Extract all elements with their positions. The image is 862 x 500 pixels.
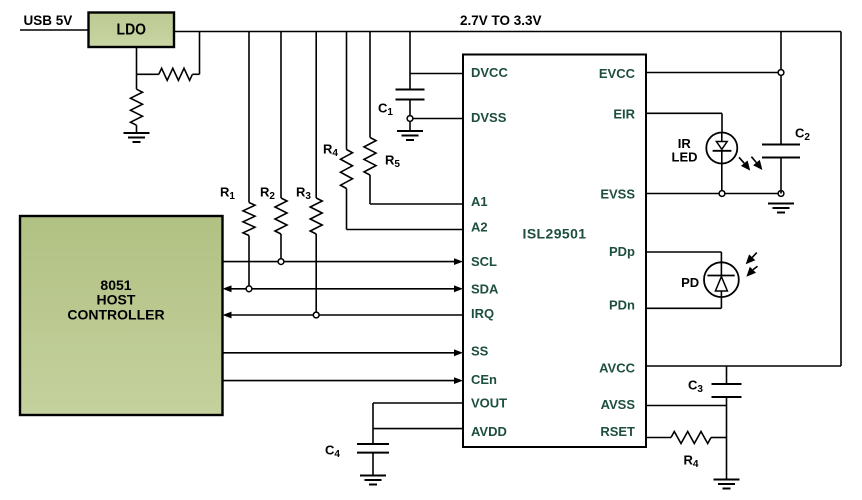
ground below C1: [397, 131, 423, 140]
svg-text:CEn: CEn: [471, 372, 497, 387]
resistor R4 (RSET): [646, 432, 727, 444]
node R1/SDA junction: [246, 286, 252, 292]
wire SCL: [223, 258, 464, 265]
node EVSS/C2 junction: [778, 191, 784, 197]
wire 3.3V rail: [174, 31, 841, 33]
wire EVCC branch vertical: [780, 32, 782, 145]
wire AVSS: [646, 405, 727, 407]
svg-text:PD: PD: [681, 275, 699, 290]
wire right rail drop: [840, 32, 842, 367]
svg-text:IRQ: IRQ: [471, 306, 494, 321]
svg-text:LED: LED: [672, 150, 698, 165]
capacitor C2: [762, 145, 800, 194]
wire DVSS: [410, 118, 463, 120]
wire LDO output to feedback node: [136, 47, 138, 74]
svg-text:EVSS: EVSS: [600, 187, 635, 202]
resistor LDO feedback (horizontal): [137, 32, 200, 81]
svg-text:VOUT: VOUT: [471, 396, 507, 411]
wire PDn: [646, 297, 721, 308]
svg-text:A2: A2: [471, 220, 488, 235]
capacitor C3: [712, 366, 742, 406]
ground below RSET: [714, 480, 740, 489]
node R3/IRQ junction: [313, 312, 319, 318]
resistor R1: [243, 32, 255, 289]
node LED/EVSS junction: [719, 191, 725, 197]
wire AVCC: [646, 365, 841, 367]
wire SDA: [223, 285, 464, 292]
IR LED emission arrows: [739, 157, 762, 171]
photodiode PD: [704, 262, 739, 297]
wire VOUT: [373, 403, 463, 444]
wire AVDD: [373, 428, 463, 430]
svg-text:SCL: SCL: [471, 254, 497, 269]
node R2/SCL junction: [278, 259, 284, 265]
svg-text:LDO: LDO: [117, 22, 147, 39]
wire IR LED to EVSS: [721, 164, 723, 194]
wire SS: [223, 349, 464, 356]
wire C3/RSET vertical: [726, 406, 728, 480]
wire USB 5V input: [20, 29, 89, 31]
svg-text:2.7V TO 3.3V: 2.7V TO 3.3V: [460, 13, 542, 28]
capacitor C4: [357, 444, 389, 476]
svg-text:PDn: PDn: [609, 298, 635, 313]
wire DVCC: [410, 73, 463, 75]
LDO regulator U-LDO: [89, 13, 175, 48]
svg-text:AVCC: AVCC: [599, 361, 635, 376]
IR LED D1: [706, 133, 737, 164]
resistor LDO divider (vertical): [131, 74, 143, 133]
resistor R2: [275, 32, 287, 262]
node EVCC junction: [778, 70, 784, 76]
svg-text:EVCC: EVCC: [599, 66, 636, 81]
wire EVCC: [646, 72, 781, 74]
PD incident light arrows: [746, 253, 758, 277]
resistor R3: [310, 32, 322, 316]
svg-text:PDp: PDp: [609, 244, 635, 259]
8051 host controller: [20, 216, 223, 415]
wire EIR: [646, 113, 722, 133]
svg-text:RSET: RSET: [600, 424, 635, 439]
svg-text:DVCC: DVCC: [471, 65, 508, 80]
resistor R4 (A2 pull-up): [341, 32, 464, 230]
wire PDp: [646, 252, 721, 262]
svg-text:ISL29501: ISL29501: [523, 226, 587, 242]
resistor R5 (A1 pull-up): [364, 32, 463, 205]
ground below EVSS: [768, 204, 794, 213]
svg-text:DVSS: DVSS: [471, 110, 507, 125]
svg-text:SS: SS: [471, 344, 489, 359]
capacitor C1: [396, 32, 425, 132]
svg-text:AVDD: AVDD: [471, 424, 507, 439]
IC U1 ISL29501: [463, 55, 646, 448]
svg-text:A1: A1: [471, 194, 488, 209]
svg-text:EIR: EIR: [613, 107, 635, 122]
wire IRQ: [223, 312, 464, 319]
wire EVSS: [646, 193, 781, 195]
svg-text:AVSS: AVSS: [601, 397, 636, 412]
wire CEn: [223, 377, 464, 384]
ground below LDO divider: [124, 133, 150, 142]
node C1/DVSS junction: [407, 116, 413, 122]
svg-text:SDA: SDA: [471, 282, 499, 297]
svg-text:USB 5V: USB 5V: [24, 13, 73, 28]
ground below C4: [360, 476, 386, 485]
